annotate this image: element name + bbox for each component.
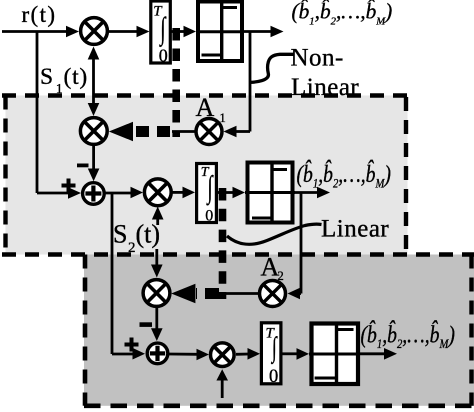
wire B1 to M4 <box>105 187 144 199</box>
multiplier M1 <box>81 18 108 45</box>
integrator I2 <box>197 164 217 225</box>
thick dashed wire: soft output of I2 down to A2 row <box>219 188 227 299</box>
pointer squiggle Linear <box>227 224 322 244</box>
svg-text:∫: ∫ <box>270 332 277 364</box>
wire M5 down to adder B2 <box>151 308 163 342</box>
wire I1 to D1 <box>172 26 197 38</box>
wire A1 output (thin) to dashed junction <box>172 130 196 133</box>
wire A2 output (thin) to dashed junction <box>219 292 260 295</box>
multiplier M6 <box>211 343 235 367</box>
label output (b1,b2,...,bM) stage 1 <box>292 0 393 28</box>
thick dashed wire with arrow into M5 <box>171 284 219 303</box>
plus sign stage 3 <box>125 338 139 352</box>
svg-text:r(t): r(t) <box>22 2 57 27</box>
svg-text:0: 0 <box>205 208 213 225</box>
decision device D1 <box>196 2 244 62</box>
wire r(t) branch down to adder B1 <box>37 32 81 199</box>
multiplier M4 <box>144 179 171 206</box>
svg-text:A: A <box>196 93 215 122</box>
wire I2 to D2 <box>218 187 245 199</box>
multiplier M5 <box>143 280 170 307</box>
wire M1 to I1 <box>108 26 150 38</box>
label output (b1,b2,...,bM) stage 2 <box>297 160 391 191</box>
svg-text:Linear: Linear <box>291 74 359 101</box>
wire input r(t) <box>2 26 79 38</box>
svg-text:1: 1 <box>220 111 226 125</box>
multiplier M2 <box>80 118 107 145</box>
plus sign stage 2 <box>62 179 76 193</box>
multiplier A1 <box>196 119 222 145</box>
decision device D3 <box>309 324 360 385</box>
wire B2 to M6 <box>169 349 209 361</box>
wire M4 to I2 <box>172 187 195 199</box>
wire feedback branch 1: D1 output down to A1 <box>224 32 251 138</box>
wire spreading-code arrow up into M6 <box>216 369 228 398</box>
dashed box stage-2 (light gray, linear stage) <box>2 96 408 255</box>
wire S2 down-arrow into M5 <box>151 249 163 278</box>
svg-text:0: 0 <box>269 367 278 387</box>
wire branch stage2 output down to adder B2 <box>112 193 145 360</box>
svg-text:2: 2 <box>278 269 284 283</box>
integrator I3 <box>261 323 281 387</box>
wire S1 up-arrow into M1 <box>88 47 100 106</box>
wire M2 down to adder B1 <box>88 146 100 181</box>
decision device D2 <box>245 163 295 223</box>
wire S1 down-arrow into M2 <box>88 103 100 116</box>
svg-text:Linear: Linear <box>321 216 389 243</box>
minus sign stage 2 <box>77 164 89 168</box>
wire I3 to D3 <box>282 348 309 360</box>
wire S2 up-arrow into M4 <box>152 207 164 226</box>
svg-text:Non-: Non- <box>291 45 344 72</box>
adder B2 <box>147 343 168 364</box>
wire M6 to I3 <box>236 348 260 360</box>
adder B1 <box>83 183 105 205</box>
wire D3 output <box>360 348 397 360</box>
label output (b1,b2,...,bM) stage 3 <box>361 321 455 352</box>
pointer squiggle Non-Linear <box>251 54 295 82</box>
wire feedback branch 2: D2 output down to A2 <box>288 193 302 300</box>
integrator I1 <box>151 1 171 65</box>
minus sign stage 3 <box>140 322 153 327</box>
wire D1 output <box>244 26 284 38</box>
dashed box stage-3 (dark gray) <box>2 255 474 406</box>
wire D2 output <box>295 187 330 199</box>
svg-text:0: 0 <box>159 45 168 65</box>
multiplier A2 <box>260 281 286 307</box>
thick dashed wire: soft output of I1 down to A1 row <box>172 28 180 137</box>
thick dashed wire with arrow into M2 <box>109 122 170 141</box>
